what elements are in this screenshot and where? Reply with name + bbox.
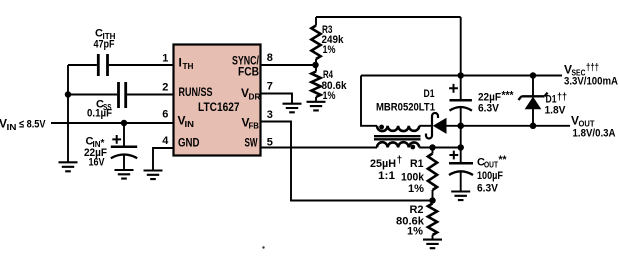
ground CIN [115,170,134,179]
wire riser to VSEC [460,17,462,76]
wire pin8 SYNC/FCB [261,64,317,66]
capacitor COUT polarized [449,148,473,192]
node junction CIN on VIN wire [121,120,128,127]
svg-text:6.3V: 6.3V [477,182,499,194]
svg-text:RUN/SS: RUN/SS [179,87,213,99]
pin label VDR [241,86,261,101]
svg-text:3.3V/100mA: 3.3V/100mA [564,76,618,88]
svg-text:47pF: 47pF [94,39,115,51]
ground R4 [307,102,326,111]
wire top feedback [316,16,461,18]
svg-text:4: 4 [162,135,169,147]
pin label VFB [242,115,260,130]
ground VDR [283,104,302,113]
svg-text:100k: 100k [401,172,425,184]
label VSEC [564,63,599,78]
svg-text:8: 8 [267,52,273,64]
wire pin7 VDR [261,94,293,104]
svg-text:6: 6 [162,108,168,120]
resistor R1 [428,148,437,201]
wire VOUT drop to SW line [460,126,462,148]
wire pin5 SW to transformer [261,147,378,149]
svg-text:LTC1627: LTC1627 [198,100,240,114]
capacitor C_ITH plates [98,54,107,76]
node junction VSEC 22uF [457,72,464,79]
svg-text:3: 3 [267,109,273,121]
label D1 zener [546,92,568,106]
svg-text:†: † [397,155,403,166]
resistor R2 [428,201,437,239]
label VOUT [571,113,595,128]
node junction R1 top [429,144,436,151]
svg-text:R2: R2 [410,204,424,216]
svg-text:IN: IN [185,119,195,129]
node phasing dot secondary [379,125,384,130]
node junction VFB divider [429,197,436,204]
inductor L1 primary winding 25uH [377,142,419,147]
capacitor C_SS plates [119,82,126,108]
svg-text:TH: TH [183,61,194,71]
svg-text:†††: ††† [586,63,599,74]
resistor R4 [311,72,320,102]
wire pin3 VFB to divider [261,122,433,201]
wire pin2 RUN/SS left segment [68,94,117,96]
ground R2 [423,240,442,249]
svg-text:††: †† [557,92,567,103]
wire pin4 GND [153,148,174,170]
wire VOUT rail [446,125,570,127]
label VIN <= 8.5V [0,117,46,133]
ground COUT [451,192,470,201]
svg-text:MBR0520LT1: MBR0520LT1 [376,101,435,113]
IC U1 LTC1627 body [174,45,261,156]
stray dot artifact [262,246,264,248]
svg-text:25µH: 25µH [370,158,396,170]
wire secondary to diode [419,125,431,127]
capacitor CIN polarized [111,123,137,170]
svg-text:2: 2 [162,82,168,94]
svg-text:1%: 1% [323,44,336,56]
label CSS [96,99,112,112]
wire secondary left riser to VSEC [361,76,377,126]
svg-text:SW: SW [245,137,258,149]
capacitor 22uF polarized [449,76,472,126]
svg-text:GND: GND [178,137,200,149]
wire pin1 ITH right segment [109,64,174,66]
svg-text:IN: IN [7,123,17,132]
label 22uF*** [478,90,514,104]
svg-text:1%: 1% [407,226,423,238]
svg-text:0.1µF: 0.1µF [87,108,112,120]
svg-text:≤ 8.5V: ≤ 8.5V [19,119,46,131]
svg-text:7: 7 [267,81,273,93]
svg-text:1:1: 1:1 [378,170,395,182]
transformer core [374,136,421,139]
svg-text:SYNC/: SYNC/ [232,55,260,67]
label CIN* [86,136,105,150]
label 25uH+ [370,155,402,170]
svg-text:1%: 1% [323,90,336,102]
wire pin2 RUN/SS right segment [127,94,174,96]
svg-text:OUT: OUT [484,160,498,169]
ground left bus [59,162,78,171]
label CITH [95,28,116,41]
wire pin1 ITH left segment [68,64,97,66]
ground pin4 [144,171,163,180]
svg-text:***: *** [502,90,515,102]
pin label ITH [179,56,194,71]
svg-text:6.3V: 6.3V [478,102,500,114]
svg-text:I: I [179,56,182,70]
svg-text:1: 1 [162,52,168,64]
node junction VOUT 22uF [457,123,464,130]
svg-text:D1: D1 [424,88,435,100]
svg-text:1.8V/0.3A: 1.8V/0.3A [573,127,616,139]
wire VIN to pin6 [51,122,174,124]
svg-text:16V: 16V [89,157,106,169]
node junction COUT top [457,144,464,151]
svg-text:**: ** [499,154,508,166]
node junction R3/R4 divider tap [312,62,319,69]
node phasing dot primary [410,145,415,150]
wire SW line to output junctions [419,147,460,149]
svg-text:FCB: FCB [238,67,259,79]
resistor R3 [311,17,320,72]
node junction VSEC zener [530,72,537,79]
pin label VIN [178,114,195,129]
svg-text:1%: 1% [408,183,424,195]
svg-text:DR: DR [249,91,261,101]
diode D1 MBR0520LT1 schottky [426,113,446,139]
pin label SYNC/FCB [232,55,260,78]
label COUT** [477,154,507,169]
svg-text:FB: FB [249,121,260,131]
wire VSEC rail [361,75,562,77]
svg-text:100µF: 100µF [477,170,503,182]
node junction bus/CSS [65,91,72,98]
wire left ground bus [67,65,69,162]
svg-text:1.8V: 1.8V [545,105,567,117]
svg-text:5: 5 [267,136,273,148]
diode D1 zener 1.8V [518,76,547,126]
inductor secondary winding [377,126,419,131]
svg-text:R1: R1 [410,158,424,170]
node junction VOUT zener [530,123,537,130]
